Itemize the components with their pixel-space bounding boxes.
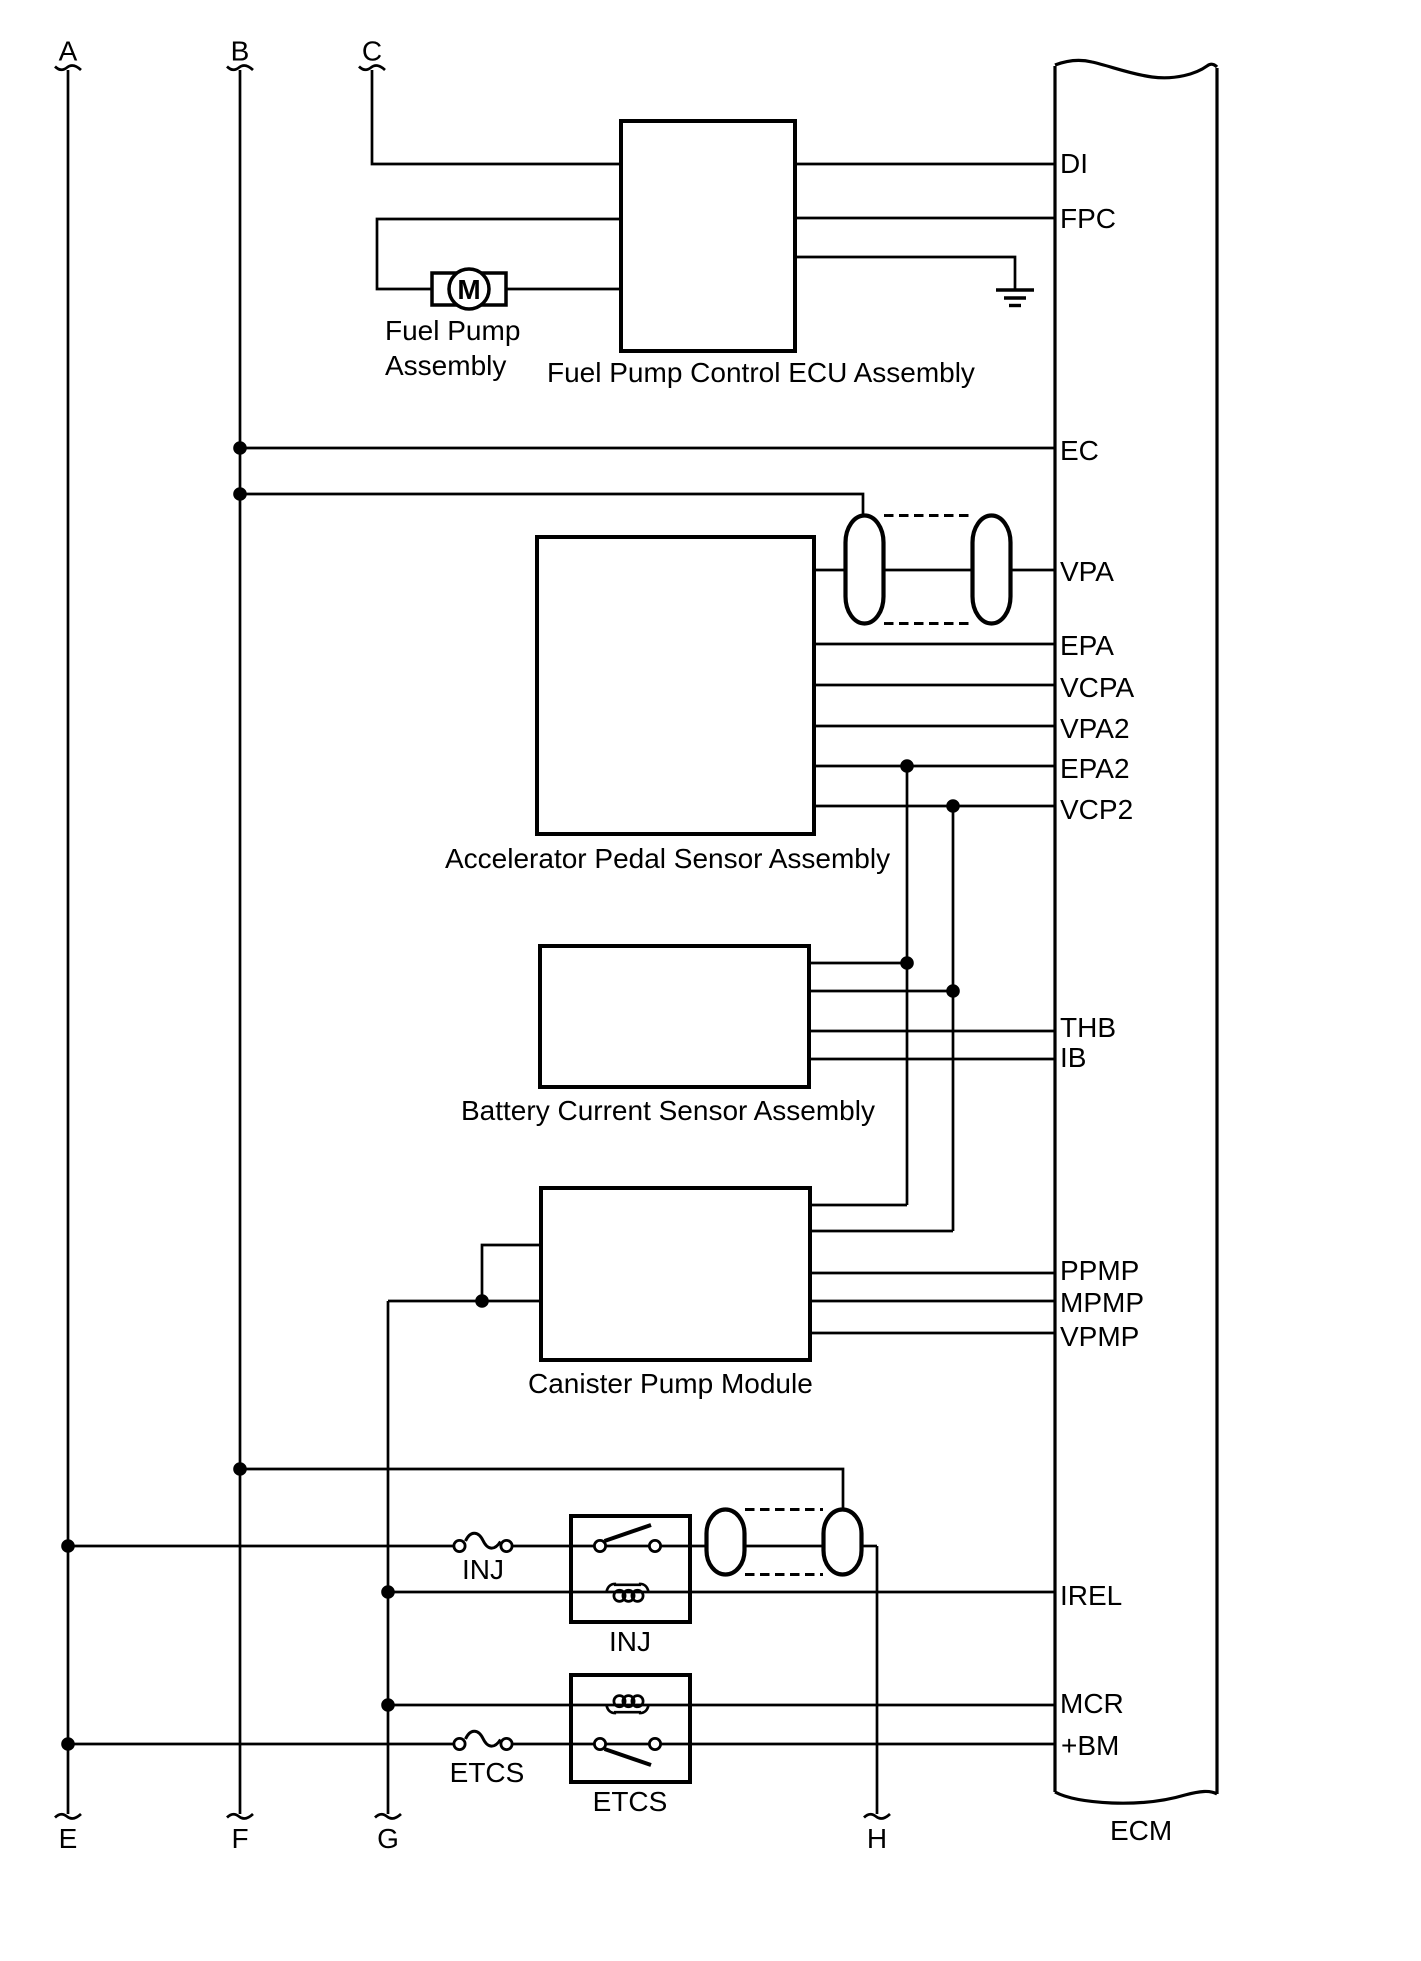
node dot V1-battery — [900, 956, 914, 970]
node dot canister left — [475, 1294, 489, 1308]
svg-text:Assembly: Assembly — [385, 350, 506, 381]
wire fuse INJ to relay and capsule — [513, 1545, 690, 1548]
svg-text:EC: EC — [1060, 435, 1099, 466]
wire EPA2 — [814, 765, 1055, 768]
shielded twisted pair symbol at VPA: right capsule — [973, 516, 1011, 624]
relay ETCS switch blade — [605, 1749, 652, 1765]
relay ETCS switch contacts — [594, 1738, 605, 1749]
svg-text:Battery Current Sensor Assembl: Battery Current Sensor Assembly — [461, 1095, 875, 1126]
wire canister left pin1 with bend — [482, 1245, 541, 1301]
wire IREL from G to ECM — [388, 1591, 1055, 1594]
shield dashed top at INJ — [745, 1508, 823, 1511]
wire VPMP — [810, 1332, 1055, 1335]
svg-text:IREL: IREL — [1060, 1580, 1122, 1611]
break symbol H bottom — [864, 1814, 890, 1819]
wire +BM from A to ECM — [68, 1743, 453, 1746]
wire EPA — [814, 643, 1055, 646]
wire bus C with bend to Fuel Pump Control ECU — [372, 70, 621, 164]
svg-text:ETCS: ETCS — [450, 1757, 525, 1788]
node V2 vertical from VCP2 down to canister — [952, 806, 955, 1231]
ground symbol — [996, 290, 1034, 306]
svg-text:INJ: INJ — [609, 1626, 651, 1657]
svg-text:MCR: MCR — [1060, 1688, 1124, 1719]
relay INJ switch blade — [605, 1525, 652, 1541]
node dot B-VPA shield — [233, 487, 247, 501]
wire canister right pin1 to V1 — [810, 1204, 907, 1207]
svg-text:ECM: ECM — [1110, 1815, 1172, 1846]
svg-text:G: G — [377, 1823, 399, 1854]
svg-text:VPMP: VPMP — [1060, 1321, 1139, 1352]
svg-text:EPA2: EPA2 — [1060, 753, 1130, 784]
svg-text:C: C — [362, 36, 382, 67]
svg-text:MPMP: MPMP — [1060, 1287, 1144, 1318]
wire INJ fuse row from A — [68, 1545, 453, 1548]
node dot A-INJ fuse — [61, 1539, 75, 1553]
svg-text:B: B — [231, 36, 250, 67]
wire EC from B to ECM — [240, 447, 1055, 450]
wire battery sensor pin1 to node V1 — [809, 962, 907, 965]
relay INJ box — [571, 1516, 690, 1622]
wire battery sensor pin2 to node V2 — [809, 990, 953, 993]
shielded twisted pair symbol at VPA: left capsule — [846, 516, 884, 624]
wire FPC from ECU to ECM — [795, 217, 1055, 220]
wire bus A vertical — [67, 70, 70, 1814]
wire VCPA — [814, 684, 1055, 687]
canister pump module box — [541, 1188, 810, 1360]
fuse ETCS — [454, 1731, 512, 1749]
svg-text:Canister Pump Module: Canister Pump Module — [528, 1368, 813, 1399]
wire IB — [809, 1058, 1055, 1061]
svg-text:Fuel Pump Control ECU Assembly: Fuel Pump Control ECU Assembly — [547, 357, 975, 388]
battery current sensor assembly box — [540, 946, 809, 1087]
fuel pump control ECU assembly box — [621, 121, 795, 351]
wire THB — [809, 1030, 1055, 1033]
break symbol E bottom — [55, 1814, 81, 1819]
wire MCR from G to ECM — [388, 1704, 1055, 1707]
wire ECU ground stub — [795, 257, 1015, 290]
svg-text:+BM: +BM — [1061, 1730, 1119, 1761]
node dot F-INJ shield — [233, 1462, 247, 1476]
wire canister left pin2 to G — [388, 1300, 541, 1303]
shielded pair symbol at INJ: left capsule — [707, 1510, 745, 1575]
wire B to VPA shield capsule — [240, 494, 863, 516]
node dot V2-VCP2 — [946, 799, 960, 813]
node dot B-EC — [233, 441, 247, 455]
svg-text:INJ: INJ — [462, 1554, 504, 1585]
wire fuel pump loop from ECU left to motor — [377, 219, 621, 289]
wire DI from ECU to ECM — [795, 163, 1055, 166]
svg-text:VPA: VPA — [1060, 556, 1114, 587]
svg-text:VCPA: VCPA — [1060, 672, 1134, 703]
relay ETCS coil — [607, 1696, 649, 1713]
relay ETCS box — [571, 1675, 690, 1782]
svg-text:H: H — [867, 1823, 887, 1854]
node dot G-IREL — [381, 1585, 395, 1599]
svg-text:Fuel Pump: Fuel Pump — [385, 315, 520, 346]
wire VPA: pedal box to capsule, between capsules, capsule to ECM — [814, 569, 846, 572]
wire motor to ECU left — [506, 288, 621, 291]
node dot V2-battery — [946, 984, 960, 998]
svg-text:F: F — [231, 1823, 248, 1854]
break symbol B top — [227, 66, 253, 71]
shield dashed top at VPA — [884, 514, 972, 517]
node dot G-MCR — [381, 1698, 395, 1712]
wire canister right pin2 to V2 — [810, 1230, 953, 1233]
wire F to INJ shield capsule — [240, 1469, 843, 1510]
relay INJ switch contacts — [594, 1540, 605, 1551]
svg-text:FPC: FPC — [1060, 203, 1116, 234]
svg-text:Accelerator Pedal Sensor Assem: Accelerator Pedal Sensor Assembly — [445, 843, 890, 874]
shield dashed bottom at VPA — [884, 622, 972, 625]
svg-text:IB: IB — [1060, 1042, 1086, 1073]
svg-text:A: A — [59, 36, 78, 67]
svg-text:VCP2: VCP2 — [1060, 794, 1133, 825]
break symbol A top — [55, 66, 81, 71]
wire VPA2 — [814, 725, 1055, 728]
break symbol F bottom — [227, 1814, 253, 1819]
wire bus G vertical — [387, 1301, 390, 1814]
wire VCP2 — [814, 805, 1055, 808]
node dot A-BM — [61, 1737, 75, 1751]
wire bus H vertical — [876, 1546, 879, 1814]
shielded pair symbol at INJ: right capsule — [824, 1510, 862, 1575]
fuse INJ — [454, 1533, 512, 1551]
svg-text:PPMP: PPMP — [1060, 1255, 1139, 1286]
node dot V1-EPA2 — [900, 759, 914, 773]
break symbol G bottom — [375, 1814, 401, 1819]
svg-text:ETCS: ETCS — [593, 1786, 668, 1817]
svg-text:DI: DI — [1060, 148, 1088, 179]
ECM left edge — [1053, 66, 1056, 1792]
ECM bottom torn edge — [1055, 1791, 1217, 1803]
svg-text:VPA2: VPA2 — [1060, 713, 1130, 744]
accelerator pedal sensor assembly box — [537, 537, 814, 834]
ECM right edge — [1215, 68, 1218, 1794]
wire MPMP — [810, 1300, 1055, 1303]
break symbol C top — [359, 66, 385, 71]
ECM top torn edge — [1055, 60, 1217, 77]
shield dashed bottom at INJ — [745, 1573, 823, 1576]
wire between INJ capsules — [690, 1545, 707, 1548]
wire bus B/F vertical — [239, 70, 242, 1814]
wire PPMP — [810, 1272, 1055, 1275]
svg-text:M: M — [457, 274, 480, 305]
node V1 vertical from EPA2 down to canister — [906, 766, 909, 1205]
wire INJ capsule to H — [861, 1545, 877, 1548]
relay INJ coil — [607, 1584, 649, 1601]
svg-text:EPA: EPA — [1060, 630, 1114, 661]
svg-text:E: E — [59, 1823, 78, 1854]
svg-text:THB: THB — [1060, 1012, 1116, 1043]
fuel pump motor M — [432, 269, 506, 309]
